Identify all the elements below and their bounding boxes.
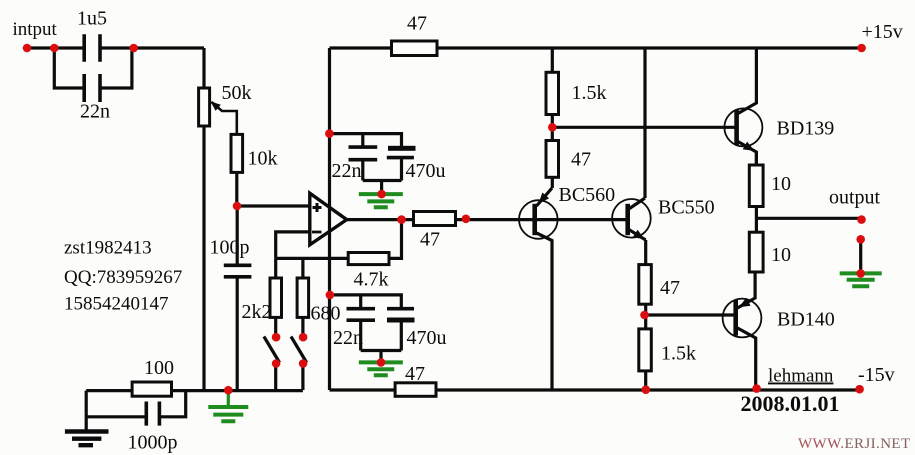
node output terminal [857,215,866,224]
svg-text:10: 10 [771,244,791,266]
resistor R5 680 body [297,278,309,317]
resistor R4 2k2 body [270,278,282,317]
label watermark [798,436,911,452]
wire BD139 emitter chain [755,152,758,272]
label 10k [248,148,278,170]
wire v+ decouple bus [329,134,401,193]
ground G4 output [840,273,882,286]
svg-text:22n: 22n [332,160,362,182]
node feedback [397,215,406,224]
resistor R12 10 body [749,165,763,207]
label BC550 [658,197,715,219]
label 1.5k lower [661,343,696,365]
label 680 [311,303,341,325]
label 47 bottom [405,363,425,385]
svg-text:BD139: BD139 [777,118,835,140]
svg-text:1u5: 1u5 [77,8,107,30]
wire v- decouple bus [330,295,401,362]
node -15v terminal [855,385,864,394]
label -15v [858,364,895,386]
node BD139 base [548,123,557,132]
wire BD139 base line [552,126,736,129]
wire BD140 base line [645,313,736,316]
transistor Q4 BD140 [723,272,762,389]
node BD140 base [640,311,649,320]
ground G3 [208,391,248,422]
label intput [13,19,58,40]
node switch1 top [272,333,281,342]
svg-text:15854240147: 15854240147 [64,294,169,315]
label BD140 [777,309,835,331]
label 22n upper bank [332,160,362,182]
node input B [129,44,138,53]
resistor R7 47 output body [414,212,456,226]
label 10 lower [771,244,791,266]
ground G1 [359,194,403,207]
label QQ [64,267,182,288]
node ground 1 [377,190,386,199]
resistor R11 1.5k body [639,329,652,371]
wire pot wiper [211,101,237,134]
wire 10k line [235,134,238,206]
svg-text:lehmann: lehmann [768,366,834,387]
label 2k2 [242,301,272,323]
svg-text:22n: 22n [333,327,363,349]
switch S2 blade [291,337,307,363]
node 1.5k bottom [642,385,651,394]
resistor R6 47 top body [392,41,438,56]
wire pot line [202,48,205,390]
node plus input [233,202,242,211]
op-amp plus symbol [313,203,322,212]
capacitor C3 100p plates [224,265,252,277]
svg-text:intput: intput [13,19,58,40]
transistor Q3 BD139 [724,48,762,165]
resistor R3 4.7k body [348,253,389,265]
node ground 2 [377,358,386,367]
label 1.5k top [572,82,607,104]
capacitor C6 22n plates [347,309,376,321]
label BD139 [777,118,835,140]
svg-text:470u: 470u [407,327,447,349]
label phone [64,294,169,315]
wire chassis drop [85,391,88,431]
resistor R2 10k body [231,134,243,172]
label 47 output [420,229,440,251]
label 47 mid [571,149,591,171]
resistor R15 47 bottom body [395,383,436,397]
capacitor C1 1u5 plates [84,34,100,62]
label BC560 [559,184,616,206]
svg-text:470u: 470u [406,160,446,182]
wire minus rail [330,388,860,391]
switch S1 blade [264,337,280,363]
svg-text:+15v: +15v [862,21,903,43]
capacitor C2 22n plates [84,74,100,102]
wire BC550 collector [643,48,646,198]
svg-text:BD140: BD140 [777,309,835,331]
node after 47 [462,215,471,224]
label 10 upper [771,173,791,195]
wire noninverting input [237,204,310,207]
wire ground rail [86,389,303,392]
resistor R9 47 body [546,141,559,178]
svg-text:-15v: -15v [858,364,895,386]
node BD140 collector [752,384,761,393]
ground G2 [359,362,403,375]
node ground rail [224,386,233,395]
svg-text:47: 47 [571,149,591,171]
resistor R14 100 body [132,382,171,396]
svg-text:WWW.ERJI.NET: WWW.ERJI.NET [798,436,911,452]
svg-text:10k: 10k [248,148,278,170]
svg-text:zst1982413: zst1982413 [64,238,152,259]
op-amp minus symbol [312,231,322,234]
wire feedback bus [276,220,402,259]
svg-text:output: output [829,187,881,209]
svg-text:47: 47 [660,277,680,299]
svg-text:680: 680 [311,303,341,325]
label 100p [210,237,250,259]
wire output ground stub [859,239,862,273]
svg-text:BC550: BC550 [658,197,715,219]
svg-text:100: 100 [144,357,174,379]
svg-text:4.7k: 4.7k [354,269,389,291]
wire output [756,217,861,220]
capacitor C7 470u plates [387,309,415,323]
label lehmann [768,366,834,387]
capacitor C4 22n plates [349,147,378,160]
label +15v [862,21,903,43]
wire 2k2 branch [274,258,277,390]
label 22n input [80,101,110,123]
node switch1 bottom [272,359,281,368]
wire input cap loop [54,48,132,88]
op-amp supply line [328,48,331,390]
op-amp U1 [310,193,347,245]
wire 1.5k 47 chain [551,48,554,188]
capacitor C8 1000p plates [146,402,159,426]
svg-text:100p: 100p [210,237,250,259]
node input terminal [23,44,32,53]
node output ground bottom [856,269,865,278]
node output ground top [856,235,865,244]
label 470u upper bank [406,160,446,182]
svg-text:50k: 50k [222,82,252,104]
node switch2 bottom [299,359,308,368]
node input A [50,44,59,53]
svg-text:47: 47 [407,13,427,35]
svg-text:1.5k: 1.5k [661,343,696,365]
label date [741,391,840,416]
svg-text:2008.01.01: 2008.01.01 [741,391,840,416]
label 100 [144,357,174,379]
svg-text:2k2: 2k2 [242,301,272,323]
svg-text:47: 47 [405,363,425,385]
svg-text:22n: 22n [80,101,110,123]
capacitor C5 470u plates [387,146,416,158]
transistor Q2 BC550 [612,198,651,240]
potentiometer R1 50k body [199,88,210,126]
label 1u5 [77,8,107,30]
label zst [64,238,152,259]
label 47 lower mid [660,277,680,299]
svg-text:1.5k: 1.5k [572,82,607,104]
label 470u lower bank [407,327,447,349]
label 4.7k [354,269,389,291]
svg-text:47: 47 [420,229,440,251]
svg-text:10: 10 [771,173,791,195]
svg-text:1000p: 1000p [128,432,178,454]
wire input rail [27,46,204,49]
wire 680 branch [301,258,304,390]
wire inverting input [276,232,310,259]
label 1000p [128,432,178,454]
wire BC550 emitter chain [644,240,647,390]
wire 100p branch [236,206,239,390]
label 22n lower bank [333,327,363,349]
resistor R8 1.5k body [546,72,559,114]
wire top rail [330,46,862,49]
chassis ground [65,432,109,446]
svg-text:BC560: BC560 [559,184,616,206]
node switch2 top [299,333,308,342]
resistor R13 10 body [749,232,763,272]
label output [829,187,881,209]
label 50k [222,82,252,104]
node +15v terminal [857,44,866,53]
wire opamp output [347,218,628,221]
wire 1000p loop [86,391,186,417]
resistor R10 47 body [639,265,652,305]
transistor Q1 BC560 [519,188,558,390]
node v+ decouple [325,129,334,138]
svg-text:QQ:783959267: QQ:783959267 [64,267,182,288]
node v- decouple [326,291,335,300]
label 47 top [407,13,427,35]
